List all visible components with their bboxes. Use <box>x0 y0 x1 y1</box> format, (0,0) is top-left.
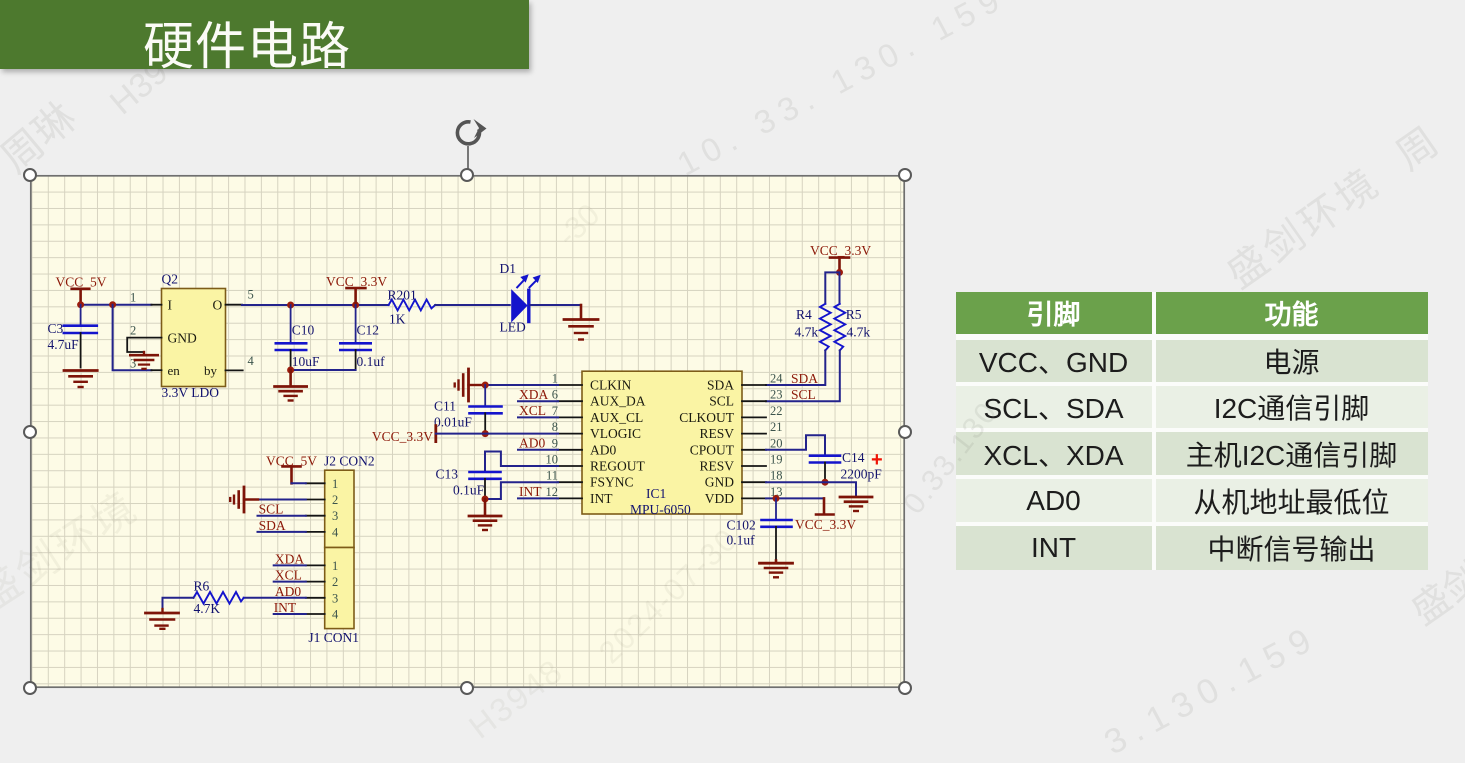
ground under C10 <box>275 370 307 401</box>
svg-text:C10: C10 <box>292 323 315 338</box>
junction at C3 <box>77 301 84 308</box>
wire SCL J2 pin3 <box>258 515 306 517</box>
regulator Q2 <box>162 272 226 401</box>
wire SDA J2 pin4 <box>258 531 306 533</box>
power port VCC_3.3V (LDO output) <box>326 274 387 305</box>
svg-text:24: 24 <box>770 372 783 386</box>
svg-text:INT: INT <box>519 484 542 499</box>
capacitor C10 <box>276 305 320 370</box>
table header 引脚 <box>956 292 1152 335</box>
svg-text:C12: C12 <box>357 323 380 338</box>
svg-text:3: 3 <box>332 509 338 523</box>
power port VCC_5V (regulator input) <box>56 275 107 305</box>
IC pin stubs right <box>742 385 766 498</box>
svg-text:7: 7 <box>552 404 558 418</box>
svg-text:XCL: XCL <box>519 403 546 418</box>
svg-text:LED: LED <box>500 320 526 335</box>
wire Q2 pin2 to ground <box>127 338 161 352</box>
svg-text:2: 2 <box>130 323 136 337</box>
IC pin names <box>590 378 735 506</box>
selection handle bottom-left <box>23 681 37 695</box>
svg-text:23: 23 <box>770 388 783 402</box>
selection handle bottom-center <box>460 681 474 695</box>
svg-text:J2 CON2: J2 CON2 <box>324 453 375 468</box>
wire VLOGIC pin8 <box>436 433 558 435</box>
watermark shengjian bottom-right corner <box>1398 546 1465 635</box>
watermark shengjian right <box>1213 108 1451 299</box>
svg-text:22: 22 <box>770 404 783 418</box>
wire 3.3V output net <box>242 304 389 306</box>
svg-text:20: 20 <box>770 436 783 450</box>
IC pin stubs left <box>558 385 582 498</box>
selection handle mid-right <box>898 425 912 439</box>
wire CPOUT to C14 <box>766 435 825 455</box>
watermark zhoulin top-left <box>0 85 86 184</box>
wire XDA J1 pin1 <box>274 564 306 566</box>
junction C102 top <box>773 495 780 502</box>
svg-text:GND: GND <box>168 331 197 346</box>
wire pullup branch <box>825 272 839 303</box>
svg-text:C102: C102 <box>727 518 756 533</box>
svg-text:XDA: XDA <box>519 387 548 402</box>
capacitor C13 <box>436 467 501 500</box>
svg-text:21: 21 <box>770 420 783 434</box>
svg-text:4.7uF: 4.7uF <box>48 337 80 352</box>
svg-text:0.1uf: 0.1uf <box>357 354 386 369</box>
svg-text:18: 18 <box>770 469 783 483</box>
resistor R201 <box>388 288 436 327</box>
wire VCC_5V node <box>81 304 152 306</box>
svg-text:O: O <box>213 298 223 313</box>
wire R5 to SCL <box>766 350 840 401</box>
junction at C10 <box>287 302 294 309</box>
J2 J1 pin stubs <box>306 483 325 614</box>
svg-text:4.7K: 4.7K <box>194 601 221 616</box>
junction pullup top <box>836 269 843 276</box>
svg-text:VCC_3.3V: VCC_3.3V <box>326 274 387 289</box>
wire VDD pin13 <box>766 497 824 499</box>
svg-text:12: 12 <box>546 485 559 499</box>
svg-text:VCC_3.3V: VCC_3.3V <box>795 517 856 532</box>
svg-text:FSYNC: FSYNC <box>590 475 634 490</box>
ground under C13 <box>469 499 501 530</box>
junction at C12 <box>352 302 359 309</box>
junction C10 bottom <box>287 367 294 374</box>
sideways ground at CLKIN <box>455 369 481 401</box>
svg-text:INT: INT <box>274 600 297 615</box>
watermark h39 top-left <box>103 53 176 123</box>
wire INT J1 pin4 <box>274 613 306 615</box>
ground at R6 <box>146 609 179 629</box>
svg-text:AUX_CL: AUX_CL <box>590 410 643 425</box>
svg-text:8: 8 <box>552 420 558 434</box>
svg-text:R5: R5 <box>846 307 862 322</box>
svg-text:4.7k: 4.7k <box>847 325 871 340</box>
svg-text:J1 CON1: J1 CON1 <box>308 630 359 645</box>
J2 pin numbers <box>332 477 339 540</box>
power port VCC_5V (J2) <box>266 453 317 483</box>
wire FSYNC to C13 bottom <box>485 482 558 499</box>
table row SCL SDA <box>956 386 1152 428</box>
watermark ip bottom-right <box>1098 617 1326 763</box>
junction C13 bottom <box>482 496 489 503</box>
svg-text:1K: 1K <box>389 312 406 327</box>
rotate handle icon <box>446 112 490 182</box>
svg-text:+: + <box>871 449 883 471</box>
svg-text:VCC_3.3V: VCC_3.3V <box>372 429 433 444</box>
svg-text:CLKOUT: CLKOUT <box>679 410 734 425</box>
junction C11 bottom <box>482 430 489 437</box>
capacitor C14 <box>810 449 883 482</box>
svg-text:AD0: AD0 <box>590 442 616 457</box>
wire VCC_5V to J2 pin1 <box>292 482 306 484</box>
svg-text:INT: INT <box>590 491 613 506</box>
ground under C3 <box>64 371 97 388</box>
svg-text:en: en <box>168 363 181 378</box>
IC IC1 MPU-6050 <box>582 371 742 517</box>
selection handle bottom-right <box>898 681 912 695</box>
svg-text:5: 5 <box>248 288 254 302</box>
svg-text:RESV: RESV <box>699 426 734 441</box>
sheet border <box>31 176 904 687</box>
resistor R6 <box>194 579 244 616</box>
capacitor C12 <box>340 305 385 370</box>
capacitor C102 <box>727 498 792 560</box>
svg-text:REGOUT: REGOUT <box>590 459 645 474</box>
svg-text:MPU-6050: MPU-6050 <box>630 502 691 517</box>
svg-text:9: 9 <box>552 436 558 450</box>
svg-text:SCL: SCL <box>709 394 734 409</box>
connector J2 CON2 <box>324 453 375 547</box>
ground at pin18 <box>840 497 872 511</box>
svg-text:1: 1 <box>332 559 338 573</box>
junction C14 bottom <box>822 479 829 486</box>
svg-text:VLOGIC: VLOGIC <box>590 426 641 441</box>
svg-text:C3: C3 <box>48 321 64 336</box>
junction at pin3 branch <box>109 301 116 308</box>
connector J1 CON1 <box>308 548 359 646</box>
J1 pin numbers <box>332 559 339 622</box>
svg-text:GND: GND <box>705 475 734 490</box>
table row XCL XDA <box>956 432 1152 475</box>
wire J2 pin2 to ground <box>245 499 306 501</box>
svg-text:VDD: VDD <box>705 491 734 506</box>
watermark date top partial <box>550 197 607 254</box>
wire R201 to LED <box>435 304 510 306</box>
svg-text:VCC_5V: VCC_5V <box>266 453 317 468</box>
svg-text:VCC_5V: VCC_5V <box>56 275 107 290</box>
svg-text:AD0: AD0 <box>519 436 545 451</box>
capacitor C11 <box>434 385 502 434</box>
power port VCC_3.3V (pullups) <box>810 243 871 272</box>
power port VCC_3.3V (VLOGIC) <box>372 426 436 444</box>
svg-text:SCL: SCL <box>259 502 284 517</box>
svg-text:SDA: SDA <box>707 378 734 393</box>
svg-text:4: 4 <box>248 354 255 368</box>
wire GND pin18 <box>766 482 856 496</box>
watermark h3948 bottom <box>462 651 571 746</box>
svg-text:C13: C13 <box>436 467 459 482</box>
Q2 pin stubs <box>151 305 242 371</box>
svg-text:R201: R201 <box>388 288 417 303</box>
svg-text:XCL: XCL <box>275 568 302 583</box>
svg-text:4: 4 <box>332 525 339 539</box>
wire R6 to ground <box>163 598 194 611</box>
power port VCC_3.3V (VDD) down <box>795 498 856 532</box>
wire XDA <box>518 400 558 402</box>
svg-text:3: 3 <box>332 591 338 605</box>
svg-text:CLKIN: CLKIN <box>590 378 631 393</box>
table row VCC GND <box>956 340 1152 382</box>
wire AD0 J1 pin3 <box>244 597 306 599</box>
wire XCL J1 pin2 <box>274 581 306 583</box>
svg-text:2: 2 <box>332 493 338 507</box>
svg-text:IC1: IC1 <box>646 486 666 501</box>
selection handle top-center <box>460 168 474 182</box>
svg-text:1: 1 <box>552 372 558 386</box>
resistor R4 <box>795 304 831 351</box>
IC pin numbers right <box>770 372 783 499</box>
ground after LED <box>564 305 598 340</box>
svg-text:1: 1 <box>332 477 338 491</box>
wire R4 to SDA <box>766 350 825 385</box>
svg-text:0.01uF: 0.01uF <box>434 415 472 430</box>
selection handle top-left <box>23 168 37 182</box>
selection handle top-right <box>898 168 912 182</box>
svg-text:D1: D1 <box>500 261 517 276</box>
table white backing <box>956 292 1428 571</box>
svg-text:Q2: Q2 <box>162 272 179 287</box>
svg-text:XDA: XDA <box>275 551 304 566</box>
svg-text:by: by <box>204 363 218 378</box>
watermark shengjian left <box>0 474 148 623</box>
svg-text:I: I <box>168 298 173 313</box>
wire CLKIN pin1 <box>472 384 558 386</box>
wire LED cathode to ground <box>530 304 581 306</box>
svg-text:R6: R6 <box>194 579 210 594</box>
title banner <box>0 0 529 69</box>
junction C11 top <box>482 382 489 389</box>
svg-text:6: 6 <box>552 388 558 402</box>
svg-text:VCC_3.3V: VCC_3.3V <box>810 243 871 258</box>
watermark ip right-mid <box>897 395 1006 521</box>
table row AD0 <box>956 479 1152 522</box>
ground at Q2 pin2 <box>130 352 157 369</box>
svg-text:AUX_DA: AUX_DA <box>590 394 646 409</box>
svg-text:AD0: AD0 <box>275 584 301 599</box>
svg-text:RESV: RESV <box>699 459 734 474</box>
resistor R5 <box>834 304 870 351</box>
wire AD0 pin9 <box>518 449 558 451</box>
table header 功能 <box>1156 292 1428 335</box>
svg-text:10uF: 10uF <box>292 354 320 369</box>
wire XCL <box>518 416 558 418</box>
ground under C102 <box>760 561 793 578</box>
svg-text:4: 4 <box>332 608 339 622</box>
svg-text:R4: R4 <box>796 307 812 322</box>
table row INT <box>956 526 1152 570</box>
LED D1 <box>500 261 541 335</box>
svg-text:19: 19 <box>770 453 783 467</box>
svg-text:0.1uf: 0.1uf <box>727 533 756 548</box>
svg-text:2: 2 <box>332 575 338 589</box>
sideways ground at J2 pin2 <box>230 487 258 512</box>
wire C10-C12 bottom <box>291 369 356 371</box>
svg-text:3.3V LDO: 3.3V LDO <box>162 385 220 400</box>
svg-text:1: 1 <box>130 290 136 304</box>
svg-text:0.1uF: 0.1uF <box>453 483 485 498</box>
svg-text:4.7k: 4.7k <box>795 325 819 340</box>
svg-text:SCL: SCL <box>791 387 816 402</box>
watermark ip top <box>671 0 1012 184</box>
svg-text:SDA: SDA <box>259 518 286 533</box>
svg-text:C11: C11 <box>434 399 456 414</box>
wire REGOUT to C13 <box>485 452 558 472</box>
svg-text:C14: C14 <box>842 450 865 465</box>
selection handle mid-left <box>23 425 37 439</box>
svg-text:11: 11 <box>546 469 558 483</box>
svg-text:10: 10 <box>546 453 559 467</box>
schematic sheet <box>30 175 905 688</box>
wire INT pin12 <box>518 497 558 499</box>
IC pin numbers left <box>546 372 559 499</box>
capacitor C3 <box>48 305 97 368</box>
wire to Q2 pin3 <box>113 305 152 371</box>
svg-text:SDA: SDA <box>791 371 818 386</box>
svg-text:3: 3 <box>130 356 136 370</box>
svg-text:CPOUT: CPOUT <box>690 442 735 457</box>
watermark date center <box>592 521 745 671</box>
